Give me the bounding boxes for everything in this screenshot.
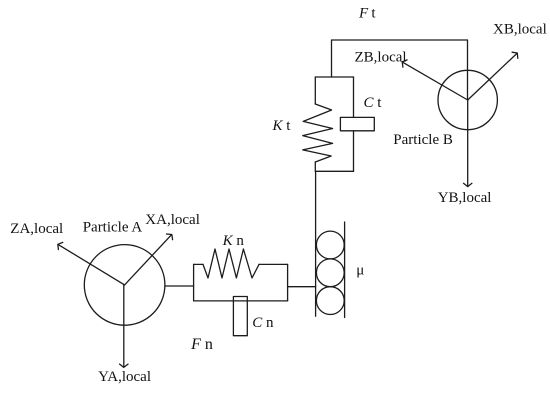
svg-text:K t: K t bbox=[272, 118, 292, 134]
svg-text:F n: F n bbox=[190, 336, 213, 353]
wire left stub below spring Kt bbox=[314, 162, 316, 171]
axis ZB arrow bbox=[403, 62, 468, 100]
axis XA arrow bbox=[125, 235, 172, 285]
tangential unit bottom bar bbox=[315, 170, 353, 172]
roller 3 bbox=[316, 287, 344, 315]
svg-text:C n: C n bbox=[252, 315, 274, 331]
spring Kn zigzag bbox=[203, 249, 259, 278]
roller 1 bbox=[316, 231, 344, 259]
svg-text:XB,local: XB,local bbox=[493, 22, 547, 38]
normal unit box left edge bbox=[193, 264, 195, 301]
axis YB arrow bbox=[467, 100, 469, 186]
roller 2 bbox=[316, 259, 344, 287]
svg-text:μ: μ bbox=[356, 262, 364, 278]
svg-text:Particle A: Particle A bbox=[83, 220, 143, 236]
wire particle A to normal unit bbox=[165, 285, 194, 287]
wire normal unit to slider bbox=[288, 286, 316, 288]
svg-text:YA,local: YA,local bbox=[98, 369, 151, 385]
wire left stub above spring Kt bbox=[314, 77, 316, 104]
normal unit box right edge bbox=[287, 264, 289, 301]
damper Ct rectangle bbox=[340, 117, 374, 130]
slider left rail bbox=[315, 171, 317, 316]
svg-text:XA,local: XA,local bbox=[145, 212, 200, 228]
wire right stub above damper Ct bbox=[353, 77, 355, 117]
svg-text:YB,local: YB,local bbox=[438, 190, 492, 206]
axis YA arrow bbox=[123, 285, 125, 367]
svg-text:K n: K n bbox=[222, 233, 245, 249]
svg-text:Particle B: Particle B bbox=[393, 132, 453, 148]
normal unit box bottom edge bbox=[194, 300, 288, 302]
svg-text:ZB,local: ZB,local bbox=[355, 50, 407, 66]
axis XB arrow bbox=[468, 54, 517, 100]
particle B circle bbox=[438, 70, 497, 129]
svg-text:ZA,local: ZA,local bbox=[10, 221, 63, 237]
normal unit box top edge left part bbox=[194, 263, 203, 265]
wire right stub below damper Ct bbox=[353, 131, 355, 172]
particle A circle bbox=[84, 245, 165, 326]
spring Kt zigzag bbox=[303, 104, 333, 162]
damper Cn rectangle bbox=[233, 297, 247, 336]
axis ZA arrow bbox=[59, 245, 125, 285]
svg-text:Ft: Ft bbox=[358, 6, 376, 22]
normal unit box top edge right part bbox=[259, 263, 288, 265]
tangential unit top bar bbox=[315, 76, 353, 78]
slider right rail bbox=[344, 222, 346, 318]
svg-text:C t: C t bbox=[364, 95, 383, 111]
wire top horizontal F t bbox=[332, 40, 468, 100]
